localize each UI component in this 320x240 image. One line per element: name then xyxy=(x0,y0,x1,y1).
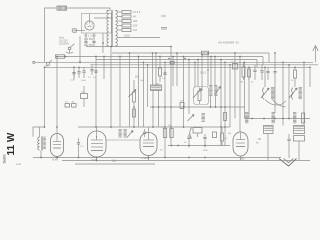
tube V4 electrodes xyxy=(143,139,154,141)
node d12 xyxy=(159,56,161,58)
tube V1 rectifier AZ1 xyxy=(85,21,94,30)
node b xyxy=(110,126,112,128)
tube V3 electrodes xyxy=(91,139,103,141)
wire mains left riser xyxy=(45,8,58,62)
wire drop 20 xyxy=(188,60,190,115)
wire choke leads xyxy=(152,91,154,128)
node r3 xyxy=(282,118,284,120)
wire x44.5 long drop xyxy=(44,67,46,127)
wire V3 top xyxy=(96,127,98,131)
wire V5 bottom xyxy=(240,156,242,161)
wire drop 7 xyxy=(143,62,145,127)
node b xyxy=(220,126,222,128)
resistor R11 xyxy=(133,92,136,102)
coil L8a padder xyxy=(245,112,248,114)
antenna A1 xyxy=(313,46,318,52)
node r2 xyxy=(263,118,265,120)
svg-text:11 W: 11 W xyxy=(6,132,17,155)
wire drop 27 xyxy=(229,65,231,127)
electrolytic C16 block xyxy=(264,126,274,134)
wire T2 bottom xyxy=(210,96,212,108)
svg-text:1µF: 1µF xyxy=(140,80,144,82)
node d14 xyxy=(197,59,199,61)
capacitor C13 xyxy=(144,129,146,131)
node d28 xyxy=(234,52,236,54)
wire TR1 tap 5 xyxy=(118,29,122,31)
trimmer arrow L11 xyxy=(127,131,133,138)
node d16 xyxy=(164,61,166,63)
wire link y107 xyxy=(150,106,245,108)
svg-text:5000: 5000 xyxy=(81,80,87,82)
node bc xyxy=(96,160,98,162)
loudspeaker field coil choke xyxy=(151,85,162,91)
wire drop 10 xyxy=(152,53,154,85)
node d30 xyxy=(244,61,246,63)
wire bus y127 xyxy=(78,126,230,128)
svg-text:150: 150 xyxy=(133,25,138,28)
tube V2 output AL4 xyxy=(51,134,64,157)
node d35 xyxy=(288,64,290,66)
node d5 xyxy=(129,52,131,54)
capacitor C2 smoothing xyxy=(92,40,95,42)
switch S1 mains xyxy=(68,47,71,50)
resistor R15 xyxy=(221,133,224,141)
svg-text:4µF 550: 4µF 550 xyxy=(84,38,93,41)
coil bracket L12 xyxy=(190,128,192,139)
nodes y107 xyxy=(152,106,154,108)
node d33 xyxy=(274,52,276,54)
svg-text:220/240V: 220/240V xyxy=(59,42,70,45)
terminal block speaker xyxy=(65,104,70,108)
resistor R18 vertical xyxy=(170,129,173,138)
wire bus y62.3 long xyxy=(35,61,313,63)
node bb xyxy=(204,157,206,159)
wire bus y64.8 xyxy=(90,64,318,66)
wire right drop xyxy=(288,147,290,158)
wire V3 bottom xyxy=(96,157,98,161)
resistor R10 box 470 xyxy=(180,103,184,109)
wire top run to transformer xyxy=(67,8,111,11)
svg-text:2M: 2M xyxy=(168,125,171,127)
wire mains drop xyxy=(79,36,81,62)
svg-text:100Ω: 100Ω xyxy=(124,35,130,38)
wire box to transformer primary xyxy=(94,17,112,19)
node d27 xyxy=(229,64,231,66)
capacitor C14 xyxy=(188,134,190,136)
coil L4 RF xyxy=(263,88,265,100)
capacitor C5 xyxy=(83,67,85,70)
node box drop xyxy=(102,42,104,44)
connector plug P1 xyxy=(73,29,76,32)
wire drop 15 xyxy=(210,57,212,87)
resistor R7 xyxy=(242,67,245,77)
wire bottom left y164 xyxy=(75,163,155,165)
junction box 160 xyxy=(233,64,238,70)
switch S2 voltage selector xyxy=(46,62,49,65)
wire drop 19 xyxy=(183,57,185,128)
resistor R17 vertical xyxy=(163,129,166,138)
wire drop 35 xyxy=(288,65,290,119)
resistor R8 xyxy=(248,69,251,77)
node d2 xyxy=(95,56,97,58)
wire drop 34 xyxy=(282,62,284,118)
resistor R4 tap dropper xyxy=(122,24,131,27)
wire box drop to bus xyxy=(102,33,104,53)
trimmer arrow L3 xyxy=(188,115,195,122)
node d19 xyxy=(183,56,185,58)
trimmer arrow T2 xyxy=(215,87,221,95)
capacitor C11 xyxy=(274,69,276,71)
node bb xyxy=(96,157,98,159)
node bb xyxy=(188,157,190,159)
node bb xyxy=(148,157,150,159)
wire bus y59.5 xyxy=(96,59,257,61)
fuse F1 on bus xyxy=(202,51,209,55)
wire bus y118 right xyxy=(245,118,311,120)
wire drop 9 xyxy=(119,57,121,128)
wire drop 37 xyxy=(303,62,305,118)
wire drop 23 xyxy=(207,53,209,86)
svg-text:4V 6,3: 4V 6,3 xyxy=(133,11,141,14)
fuse F2 left xyxy=(56,55,65,58)
rectifier enclosure box xyxy=(82,14,112,34)
label chassis marks xyxy=(161,15,166,17)
node mains junction xyxy=(79,61,81,63)
resistor R6 xyxy=(159,68,162,76)
wire x304 down xyxy=(303,119,305,126)
node d32 xyxy=(264,66,266,68)
node d20 xyxy=(188,59,190,61)
trimmer arrow L7 xyxy=(289,88,297,98)
transformer TR1 secondary winding xyxy=(115,11,117,46)
wire drop 26 xyxy=(224,62,226,127)
node d8 xyxy=(147,64,149,66)
node bb xyxy=(40,157,42,159)
svg-text:1M: 1M xyxy=(228,133,231,135)
transformer TR1 primary winding xyxy=(107,11,109,46)
node d31 xyxy=(248,66,250,68)
node d9 xyxy=(119,56,121,58)
node r1 xyxy=(251,118,253,120)
wire tube V1 cathode lead left xyxy=(74,30,85,32)
wire V4 bottom xyxy=(148,156,150,161)
nodes y145 xyxy=(171,145,173,147)
wire TR1 bottom tap xyxy=(118,37,160,39)
resistor R12 xyxy=(133,109,136,117)
wire bottom bus y160.5 xyxy=(62,160,310,162)
capacitor C10 xyxy=(267,67,269,70)
resistor R9 xyxy=(294,70,297,78)
node d24 xyxy=(214,56,216,58)
capacitor C4 xyxy=(78,67,80,71)
coil L9 padder xyxy=(293,112,296,114)
coil L3 xyxy=(202,113,205,115)
wire drop 38 xyxy=(309,67,311,87)
pickup / ground V mark xyxy=(279,159,297,167)
coil L8 padder xyxy=(272,112,275,114)
capacitor C1 smoothing xyxy=(84,40,87,42)
wire T3 top xyxy=(33,127,45,137)
svg-text:4V: 4V xyxy=(133,16,136,19)
trimmer arrow R11 xyxy=(129,90,137,98)
wire right col down xyxy=(267,134,269,161)
node bb xyxy=(164,157,166,159)
node d4 xyxy=(110,46,112,48)
potentiometer P1 volume xyxy=(198,91,201,101)
node d23 xyxy=(207,52,209,54)
wire drop 17 xyxy=(170,47,172,128)
resistor R13 box xyxy=(81,94,88,99)
svg-text:5000: 5000 xyxy=(203,150,209,152)
svg-text:110: 110 xyxy=(133,29,138,32)
node d10 xyxy=(152,52,154,54)
wire drop 30 xyxy=(244,62,246,118)
svg-text:[2µ]: [2µ] xyxy=(112,161,116,163)
coil L1 mains filter choke xyxy=(57,6,67,10)
wire drop 32 xyxy=(264,67,266,87)
wire drop 33 xyxy=(274,53,276,69)
transformer T3 output left winding xyxy=(38,137,40,150)
node bb xyxy=(56,157,58,159)
terminal left xyxy=(33,61,35,63)
svg-text:220: 220 xyxy=(133,20,138,23)
wire V2 cathode xyxy=(56,157,58,161)
wire drop 31 xyxy=(248,67,250,118)
capacitor C12 left of V3 xyxy=(78,138,80,142)
node b xyxy=(133,126,135,128)
node bus1 xyxy=(65,56,67,58)
IF transformer T2 winding b xyxy=(214,85,217,87)
coil L11 xyxy=(124,129,127,131)
node r4 xyxy=(288,118,290,120)
wire V2 top xyxy=(56,127,58,134)
svg-text:2×0,1: 2×0,1 xyxy=(200,72,207,75)
resistor R1 tap dropper xyxy=(122,11,131,14)
resistor R14 xyxy=(302,113,305,123)
node d21 xyxy=(194,61,196,63)
wire x221 down xyxy=(220,127,222,146)
wire drop 16 xyxy=(164,62,166,127)
resistor R3 tap dropper xyxy=(122,20,131,23)
wire S-link oscillator xyxy=(265,100,286,106)
wire drop 11 xyxy=(155,53,157,85)
svg-text:AL4: AL4 xyxy=(52,158,57,161)
cluster caps left of V5 xyxy=(193,128,202,134)
node d18 xyxy=(176,52,178,54)
wire drop 29 xyxy=(239,57,241,132)
node d22 xyxy=(201,54,203,56)
node d7 xyxy=(143,61,145,63)
tube V5 electrodes xyxy=(236,139,245,141)
wire x165 to bottom xyxy=(164,127,166,158)
capacitor C7 xyxy=(164,70,166,72)
wire drop 28 xyxy=(234,53,236,119)
resistor R5 tap dropper xyxy=(122,29,131,32)
wire bus y67.3 long xyxy=(45,66,310,68)
wire link tubes xyxy=(106,139,140,141)
wire drop 12 xyxy=(159,57,161,69)
node d3 xyxy=(103,56,105,58)
resistor R2 tap dropper xyxy=(122,15,131,18)
wire x225 down xyxy=(224,127,226,146)
transformer T3 core xyxy=(40,137,42,151)
wire T3 bottom to bus xyxy=(40,151,42,158)
wire drop 3 xyxy=(103,57,105,80)
wire x171 to bottom xyxy=(170,127,172,146)
node d29 xyxy=(239,56,241,58)
electrolytic C17 block xyxy=(294,126,305,134)
node b xyxy=(152,126,154,128)
node r5 xyxy=(274,118,276,120)
coil L10 between tubes xyxy=(119,129,122,131)
node d26 xyxy=(224,61,226,63)
wire drop 22 xyxy=(201,55,203,91)
node b xyxy=(95,126,97,128)
junction box small xyxy=(170,61,174,64)
wire tube V1 anode to box top xyxy=(89,14,91,22)
node d34 xyxy=(282,61,284,63)
node d15 xyxy=(210,56,212,58)
wire drop 18 xyxy=(176,53,178,86)
wire bus B+ y53 xyxy=(112,52,269,54)
node b xyxy=(170,126,172,128)
wire TR1 bottom lead to bus xyxy=(86,46,171,48)
capacitor C6b xyxy=(94,70,97,72)
node d25 xyxy=(220,59,222,61)
junction box small2 xyxy=(213,132,217,138)
wire drop 24 xyxy=(214,57,216,87)
wire TR1 tap 2 xyxy=(118,16,122,18)
node d38 xyxy=(309,66,311,68)
node d13 xyxy=(172,56,174,58)
wire drop 21 xyxy=(194,62,196,87)
node b xyxy=(224,126,226,128)
wire drop 36 xyxy=(294,67,296,70)
wire x283 down xyxy=(282,119,284,126)
tube V4 AB2 xyxy=(140,133,157,156)
potentiometer P1 enclosure xyxy=(194,87,209,105)
wire bus corner right 2 xyxy=(262,57,264,65)
node b xyxy=(183,126,185,128)
wire bus corner right 3 xyxy=(256,60,258,68)
wire bottom link y145.5 xyxy=(168,145,230,147)
coil L6 RF xyxy=(292,88,294,100)
svg-text:2M: 2M xyxy=(240,82,243,84)
wire bus y56.5 xyxy=(56,56,263,58)
wire drop 5 xyxy=(129,53,131,127)
node b xyxy=(164,126,166,128)
trimmer arrow L5 xyxy=(261,88,269,98)
transformer T3 right winding xyxy=(43,136,46,138)
capacitor C18 xyxy=(288,134,290,138)
tube V5 AB2 xyxy=(233,132,248,156)
wire TR1 tap 4 xyxy=(118,25,122,27)
wire V5 top xyxy=(240,131,242,134)
coil L7 RF winding xyxy=(299,87,302,89)
node bb xyxy=(78,157,80,159)
wire drop 13 xyxy=(172,57,174,87)
capacitor C15 xyxy=(204,134,206,137)
wire drop 4 xyxy=(110,47,112,128)
tube V3 ACH1 xyxy=(88,131,107,157)
wire drop 2 xyxy=(95,57,97,128)
capacitor C3 xyxy=(73,71,75,73)
wire V4 top feed xyxy=(148,127,150,133)
coil L5 RF winding xyxy=(271,87,274,89)
wire drop 8 xyxy=(147,65,149,107)
tube V2 electrodes xyxy=(53,141,61,143)
capacitor C8 xyxy=(254,65,256,70)
wire drop 14 xyxy=(197,60,199,88)
wire drop 1 xyxy=(73,67,75,80)
potentiometer P1 arrow xyxy=(193,89,202,99)
wire R13 leads xyxy=(83,86,85,94)
wire bus corner right 1 xyxy=(268,53,270,62)
node d6 xyxy=(138,56,140,58)
wire TR1 tap 1 xyxy=(118,11,122,13)
resistor R16 small xyxy=(224,113,227,121)
node d36 xyxy=(294,66,296,68)
node d1 xyxy=(73,66,75,68)
svg-text:Okt 4/38/WBF ·42: Okt 4/38/WBF ·42 xyxy=(218,41,239,45)
transformer TR1 core xyxy=(111,10,113,47)
node d11 xyxy=(155,52,157,54)
capacitor C6 cluster xyxy=(91,65,93,69)
IF transformer T2 winding a xyxy=(209,85,212,87)
wire bottom bus y157.5 xyxy=(33,157,281,159)
node d37 xyxy=(303,61,305,63)
capacitor C9 xyxy=(261,65,263,70)
node d17 xyxy=(170,46,172,48)
wire TR1 tap 3 xyxy=(118,20,122,22)
wire drop 6 xyxy=(138,57,140,128)
wire drop 25 xyxy=(220,60,222,128)
